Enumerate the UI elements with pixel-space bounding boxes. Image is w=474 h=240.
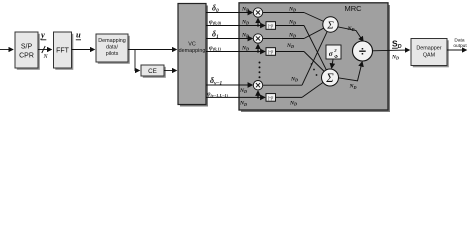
svg-text:pilots: pilots <box>106 51 119 57</box>
junction phi00 <box>257 24 259 26</box>
svg-text:ND: ND <box>239 101 247 107</box>
svg-text:|·|²: |·|² <box>268 96 273 102</box>
svg-text:ND: ND <box>391 55 399 61</box>
box sigma^2 noise <box>326 45 341 59</box>
multiplier X2 <box>253 34 262 43</box>
box magnitude2 <box>266 48 276 56</box>
svg-text:Φ: Φ <box>334 54 338 59</box>
svg-text:Σ: Σ <box>326 20 334 32</box>
svg-text:demapping: demapping <box>179 48 206 54</box>
wire mag2 out <box>276 51 305 53</box>
svg-text:|·|²: |·|² <box>268 50 273 56</box>
svg-text:φ(v−1,L−1): φ(v−1,L−1) <box>207 92 229 98</box>
multiplier X1 <box>253 8 262 17</box>
wire product2 out <box>263 38 304 40</box>
dots between label rows <box>259 62 261 64</box>
wire phi01 <box>206 51 265 53</box>
wire phi v-1,L-1 <box>206 96 265 98</box>
block Demapping data/pilots <box>96 34 128 62</box>
svg-text:ND: ND <box>286 43 294 49</box>
junction phi01 <box>257 50 259 52</box>
wire diag mag1 to sum2 <box>304 26 326 70</box>
block CE <box>141 65 164 76</box>
svg-text:ND: ND <box>349 84 357 90</box>
block S/P CPR <box>15 32 38 68</box>
divider circle <box>353 41 373 61</box>
svg-text:φ(0,1): φ(0,1) <box>209 45 222 52</box>
wire phi00 up to X1 <box>257 18 259 25</box>
svg-text:CE: CE <box>148 68 157 75</box>
block VC demapping shadow <box>180 6 208 107</box>
wire y <box>38 49 52 51</box>
svg-text:QAM: QAM <box>423 53 436 59</box>
wire diag mag3 to sum2 <box>302 82 323 97</box>
junction phi last <box>257 96 259 98</box>
box magnitude3 <box>266 94 276 102</box>
svg-text:Data: Data <box>454 38 464 44</box>
block S/P CPR shadow <box>17 34 40 70</box>
wire delta1 <box>206 38 252 40</box>
svg-text:output: output <box>453 43 467 49</box>
svg-text:ND: ND <box>288 33 296 39</box>
block Demapping data/pilots shadow <box>98 36 130 64</box>
wire delta0 <box>206 12 252 14</box>
wire sigma2 box to summer2 <box>332 60 333 69</box>
dots omitted branches <box>311 63 313 65</box>
svg-text:S/P: S/P <box>21 44 33 51</box>
svg-text:ND: ND <box>241 7 249 13</box>
svg-text:FFT: FFT <box>56 48 70 55</box>
svg-text:ND: ND <box>288 20 296 26</box>
wire diag mag2 to sum2 <box>304 52 324 72</box>
wire mag3 out <box>276 96 303 98</box>
svg-text:ND: ND <box>290 76 298 82</box>
svg-text:u: u <box>76 30 81 40</box>
svg-text:δ1: δ1 <box>212 30 219 41</box>
svg-text:ND: ND <box>289 100 297 106</box>
svg-text:÷: ÷ <box>359 44 366 59</box>
svg-text:Σ: Σ <box>325 71 334 85</box>
svg-text:N: N <box>43 54 49 60</box>
svg-text:δ0: δ0 <box>212 4 219 15</box>
multiplier X3 <box>253 81 262 90</box>
wire CE to VC <box>164 70 177 72</box>
wire data output <box>447 49 467 51</box>
wire product3 out <box>263 84 302 86</box>
wire diag product2 to sum1 <box>304 28 324 39</box>
bus slash on y <box>42 46 45 53</box>
wire down to CE <box>135 50 140 71</box>
svg-text:φ(0,0): φ(0,0) <box>209 19 222 26</box>
block Demapper QAM <box>411 39 447 66</box>
wire u <box>72 49 95 51</box>
svg-text:data/: data/ <box>106 45 118 51</box>
svg-text:Demapping: Demapping <box>98 38 126 44</box>
svg-text:|·|²: |·|² <box>268 24 273 30</box>
summer sigma1 <box>323 17 338 32</box>
svg-text:MRC: MRC <box>344 4 362 13</box>
svg-text:CPR: CPR <box>19 53 34 60</box>
svg-text:VC: VC <box>188 42 196 48</box>
wire mag1 out <box>276 25 305 27</box>
block MRC <box>239 3 388 110</box>
block FFT <box>54 32 72 68</box>
svg-text:ND: ND <box>347 26 355 32</box>
svg-text:Demapper: Demapper <box>416 46 441 52</box>
block MRC shadow <box>241 5 390 112</box>
wire sum1 to divider <box>338 27 364 42</box>
svg-text:ND: ND <box>288 7 296 13</box>
wire phi last up to X3 <box>257 91 259 97</box>
wire diag product1 to sum1 <box>304 13 324 22</box>
svg-text:ND: ND <box>241 46 249 52</box>
block VC demapping <box>178 4 206 105</box>
summer sigma2 <box>322 69 339 86</box>
block Demapper QAM shadow <box>413 40 449 67</box>
wire delta v-1 <box>206 84 252 86</box>
svg-text:ND: ND <box>239 88 247 94</box>
svg-text:δv−1: δv−1 <box>210 76 223 87</box>
wire phi00 <box>206 25 265 27</box>
wire input <box>0 49 13 51</box>
wire product1 out <box>263 12 304 14</box>
wire sum2 to divider <box>338 62 362 81</box>
svg-text:y: y <box>40 30 45 40</box>
wire output S_D <box>372 49 410 52</box>
block FFT shadow <box>55 34 73 70</box>
box magnitude1 <box>266 22 276 30</box>
wire phi01 up to X2 <box>257 44 259 51</box>
wire demapping to VC <box>128 49 177 51</box>
wire diag product3 to sum1 <box>302 31 327 85</box>
block CE shadow <box>143 67 166 78</box>
svg-text:ND: ND <box>241 33 249 39</box>
svg-text:ND: ND <box>241 20 249 26</box>
